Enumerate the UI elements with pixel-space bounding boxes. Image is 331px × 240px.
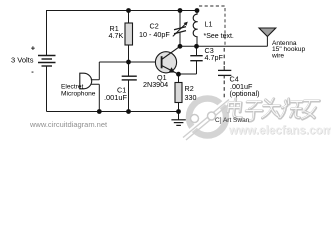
svg-text:330: 330 <box>185 93 197 102</box>
electret microphone MIC <box>80 73 92 89</box>
svg-text:3 Volts: 3 Volts <box>11 56 34 65</box>
svg-text:+: + <box>31 44 36 53</box>
junction dots <box>97 8 200 114</box>
inductor L1 <box>196 10 198 14</box>
svg-text:2N3904: 2N3904 <box>143 80 168 89</box>
svg-text:wire: wire <box>271 52 284 59</box>
svg-text:4.7pF: 4.7pF <box>205 53 224 62</box>
ground <box>171 112 185 126</box>
svg-text:10 - 40pF: 10 - 40pF <box>139 30 170 39</box>
watermark logo circle <box>183 99 231 141</box>
antenna <box>259 28 276 37</box>
svg-text:C] Art Swan: C] Art Swan <box>215 117 250 124</box>
wire: emitter lead <box>162 66 179 75</box>
wire: base wire <box>99 61 158 63</box>
svg-text:www.circuitdiagram.net: www.circuitdiagram.net <box>29 120 108 129</box>
wire: bottom ground rail <box>47 111 179 113</box>
svg-text:(optional): (optional) <box>230 89 260 98</box>
wire: mic top riser <box>98 62 100 80</box>
wire: emitter node to C3 bottom <box>179 73 197 75</box>
watermark chinese calligraphy <box>227 99 319 121</box>
svg-text:L1: L1 <box>205 20 213 29</box>
svg-text:Electret: Electret <box>61 83 84 90</box>
svg-text:.001uF: .001uF <box>104 93 127 102</box>
resistor R1 4.7K <box>128 10 130 23</box>
capacitor C4 .001uF optional <box>223 48 225 66</box>
capacitor C3 4.7pF <box>196 46 198 55</box>
resistor R2 330 <box>178 74 180 82</box>
battery B1 3 Volts <box>38 56 56 67</box>
capacitor C1 .001uF <box>128 62 130 76</box>
wire: battery top lead <box>46 10 48 55</box>
wire: collector lead <box>162 46 180 59</box>
wire: tank / antenna wire <box>180 45 267 47</box>
wire: battery bottom lead <box>46 66 48 112</box>
svg-text:*See text.: *See text. <box>204 33 234 40</box>
wire: mic bottom riser <box>98 84 100 111</box>
variable capacitor C2 10-40pF <box>179 10 181 28</box>
wire: top rail <box>47 10 198 12</box>
transistor Q1 2N3904 <box>155 52 176 73</box>
svg-text:4.7K: 4.7K <box>109 31 124 40</box>
svg-text:R2: R2 <box>185 84 194 93</box>
svg-text:www.elecfans.com: www.elecfans.com <box>228 124 331 137</box>
svg-text:Microphone: Microphone <box>61 90 96 97</box>
L1 dashed box <box>199 6 225 45</box>
